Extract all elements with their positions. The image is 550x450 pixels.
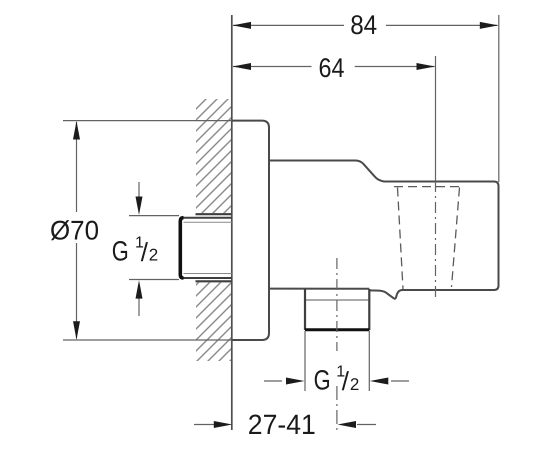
svg-text:27-41: 27-41 [248,409,316,440]
svg-text:64: 64 [319,53,345,83]
dimension 27-41 [194,409,376,440]
holder cone hidden lines (dashed) [394,187,463,289]
svg-text:/: / [141,237,149,267]
right extension line for 84 (top of body edge) [498,15,500,182]
dimension O70 [50,121,99,340]
outlet nipple G1/2 [305,289,369,330]
outlet extension lines down to G1/2 dim [304,331,306,391]
svg-text:G: G [314,365,331,396]
svg-text:Ø70: Ø70 [50,215,99,245]
outlet centerline dash-dot [336,258,338,351]
wall face line (also extension line for 84/64 and 27-41) [231,15,233,430]
svg-text:84: 84 [350,10,377,40]
inlet nipple G1/2 [180,218,232,278]
escutcheon [232,121,269,340]
svg-text:/: / [342,366,350,396]
body outline [269,161,499,299]
dimension 84 [233,10,499,40]
holder centerline (solid ext above, dash-dot below) [435,56,437,181]
dimension G1/2 inlet (left) [112,182,179,316]
dimension O70 extension lines [63,120,232,122]
dimension 64 [233,53,436,83]
svg-text:2: 2 [149,246,158,265]
svg-text:2: 2 [350,375,359,394]
svg-text:G: G [112,236,129,267]
wall hole edges [196,213,232,215]
dimension G1/2 outlet (bottom) [264,364,409,397]
